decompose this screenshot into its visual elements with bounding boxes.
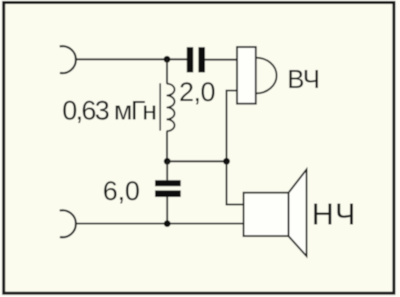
inductor core line bbox=[159, 83, 161, 130]
svg-text:6,0: 6,0 bbox=[103, 176, 140, 206]
capacitor C1 plates bbox=[187, 47, 193, 72]
woofer body U2 bbox=[244, 193, 289, 236]
wire cap C1 to tweeter bbox=[205, 59, 237, 61]
svg-text:2,0: 2,0 bbox=[179, 77, 215, 107]
node J2 bbox=[164, 158, 171, 165]
connector X2 bottom bbox=[60, 210, 76, 237]
wire coil to J2 bbox=[166, 131, 168, 161]
connector X1 top bbox=[60, 46, 76, 73]
tweeter body U1 bbox=[237, 47, 256, 104]
tweeter dome bbox=[256, 58, 277, 94]
wire top rail left bbox=[76, 58, 188, 60]
woofer cone bbox=[289, 169, 307, 256]
node J4 bbox=[164, 220, 171, 227]
svg-text:0,63 мГн: 0,63 мГн bbox=[62, 95, 156, 125]
wire tweeter lower terminal bbox=[227, 91, 238, 162]
capacitor C2 plates bbox=[155, 180, 181, 186]
svg-text:НЧ: НЧ bbox=[312, 198, 357, 232]
wire C2 to J4 bbox=[166, 197, 168, 224]
wire bottom rail bbox=[76, 223, 244, 225]
inductor L1 coil bbox=[167, 84, 175, 132]
wire J2 down to capacitor C2 bbox=[166, 161, 168, 180]
node J3 bbox=[223, 158, 230, 165]
wire mid rail bbox=[167, 160, 226, 162]
node J1 bbox=[164, 56, 171, 63]
svg-text:ВЧ: ВЧ bbox=[287, 66, 319, 94]
wire J3 to woofer upper terminal bbox=[227, 161, 244, 204]
wire J1 down to inductor bbox=[166, 59, 168, 83]
